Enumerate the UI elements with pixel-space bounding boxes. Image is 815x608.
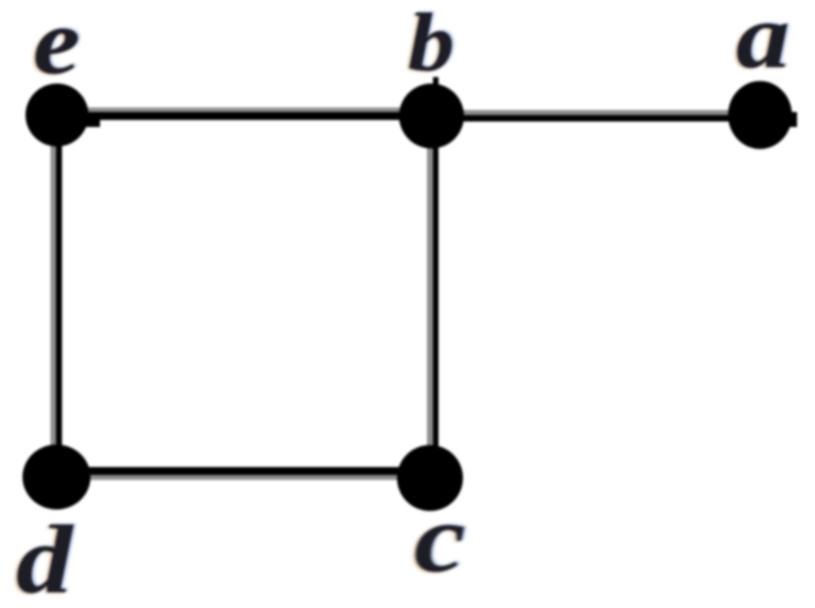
wire edge b-c (middle vertical) (427, 77, 439, 478)
node b (vertex circle) (399, 84, 464, 149)
wire edge d-c (bottom horizontal) (56, 467, 430, 480)
node a (vertex circle) (728, 81, 792, 149)
node c (vertex circle) (397, 445, 463, 511)
node label c (414, 490, 466, 587)
node label a (736, 0, 790, 82)
node label d (16, 511, 72, 608)
node d (vertex circle) (23, 445, 91, 510)
node e (vertex circle) (26, 84, 89, 147)
node label e (33, 0, 80, 89)
node label b (408, 1, 454, 84)
wire edge e-b (top horizontal) (57, 108, 431, 128)
wire edge e-d (left vertical) (51, 115, 63, 477)
wire edge b-a (top right horizontal) (431, 110, 797, 127)
